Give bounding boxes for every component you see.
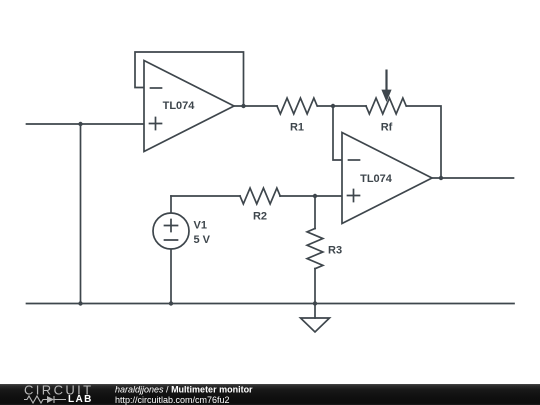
svg-text:5 V: 5 V (194, 234, 211, 246)
svg-text:haraldjjones / Multimeter moni: haraldjjones / Multimeter monitor (115, 385, 253, 395)
svg-text:R2: R2 (253, 211, 267, 223)
svg-text:Rf: Rf (381, 122, 393, 134)
svg-text:R1: R1 (290, 122, 304, 134)
svg-text:V1: V1 (194, 220, 207, 232)
svg-text:R3: R3 (328, 245, 342, 257)
svg-text:TL074: TL074 (163, 100, 196, 112)
svg-text:http://circuitlab.com/cm76fu2: http://circuitlab.com/cm76fu2 (115, 395, 230, 405)
svg-text:TL074: TL074 (360, 173, 393, 185)
svg-text:LAB: LAB (68, 394, 93, 405)
